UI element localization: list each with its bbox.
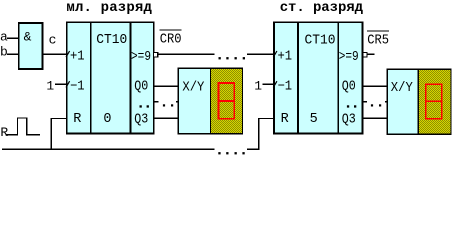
and-gate DD1	[19, 23, 43, 69]
svg-text:1: 1	[46, 79, 54, 94]
svg-text:−1: −1	[70, 80, 85, 95]
svg-text:&: &	[24, 30, 32, 45]
decoder X/Y 2	[387, 69, 418, 134]
svg-text:b: b	[0, 45, 8, 60]
dots inside U2 output column	[347, 105, 349, 107]
svg-text:−1: −1	[278, 80, 293, 95]
svg-text:Q3: Q3	[342, 112, 356, 127]
segment figure 8	[426, 84, 442, 119]
wire stub mid U2 right	[362, 101, 367, 103]
wire stub mid decoder2 left	[385, 101, 387, 103]
svg-text:1: 1	[254, 79, 262, 94]
svg-text:X/Y: X/Y	[391, 81, 413, 96]
wire 1 to -1 pin counter2	[262, 83, 274, 85]
counter U1 CT10	[67, 22, 154, 133]
wire R bus right segment	[247, 148, 260, 150]
svg-text:мл. разряд: мл. разряд	[66, 0, 152, 16]
wire CR0 into counter2 +1	[247, 53, 274, 55]
svg-text:+1: +1	[70, 49, 85, 64]
dots on R bus	[218, 152, 220, 154]
svg-text:0: 0	[103, 112, 111, 127]
svg-text:+1: +1	[278, 49, 293, 64]
R pulse waveform	[6, 118, 41, 135]
counter U2 CT10	[274, 22, 362, 133]
svg-text:Q0: Q0	[134, 80, 148, 95]
dynamic-input slash U1 +1	[66, 51, 70, 57]
inverter square on U2 >=9 output	[363, 52, 367, 56]
svg-text:X/Y: X/Y	[182, 81, 204, 96]
dots between U1 and decoder1	[163, 104, 165, 106]
dynamic-input slash U2 -1	[273, 81, 277, 87]
wire c: gate output to counter1 +1	[42, 53, 66, 55]
dots between U2 and decoder2	[371, 104, 373, 106]
wire stub mid decoder1 left	[176, 101, 178, 103]
dynamic-input slash U1 -1	[66, 81, 70, 87]
svg-text:CT10: CT10	[96, 33, 127, 48]
inverter square on U1 >=9 output	[154, 52, 158, 56]
svg-text:R: R	[281, 112, 289, 127]
svg-text:5: 5	[310, 112, 318, 127]
wire a input	[7, 37, 19, 39]
node CR0 label with overline	[160, 30, 182, 48]
display HG2	[418, 69, 451, 134]
decoder X/Y 1	[178, 68, 210, 134]
dots on CR0 net	[219, 57, 221, 59]
dots inside U1 output column	[140, 105, 142, 107]
wire Q0 U1 to decoder1	[154, 85, 179, 87]
wire riser to U1 R	[51, 119, 67, 150]
wire CR0 from square toward counter2	[158, 53, 215, 55]
dynamic-input slash U2 +1	[273, 51, 277, 57]
wire R bottom bus	[2, 148, 215, 150]
svg-text:a: a	[0, 29, 8, 44]
wire CR5 stub	[367, 53, 374, 55]
wire stub mid U1 right	[154, 101, 159, 103]
svg-text:>=9: >=9	[339, 50, 359, 65]
wire Q3 U1 to decoder1	[154, 117, 179, 119]
svg-text:ст. разряд: ст. разряд	[280, 0, 364, 16]
svg-text:c: c	[49, 32, 57, 47]
svg-text:Q0: Q0	[342, 80, 356, 95]
wire Q0 U2 to decoder2	[362, 85, 387, 87]
svg-text:CR5: CR5	[367, 34, 389, 49]
svg-text:CR0: CR0	[160, 33, 182, 48]
wire b input	[7, 53, 19, 55]
wire Q3 U2 to decoder2	[362, 117, 387, 119]
node CR5 label with overline	[367, 31, 389, 49]
wire riser to U2 R	[259, 119, 274, 150]
display HG1	[211, 68, 243, 134]
svg-text:CT10: CT10	[305, 34, 336, 49]
wire 1 to -1 pin	[55, 83, 67, 85]
svg-text:Q3: Q3	[134, 112, 148, 127]
segment figure 8	[218, 83, 234, 119]
svg-text:>=9: >=9	[131, 50, 151, 65]
svg-text:R: R	[0, 125, 8, 140]
svg-text:R: R	[73, 112, 81, 127]
